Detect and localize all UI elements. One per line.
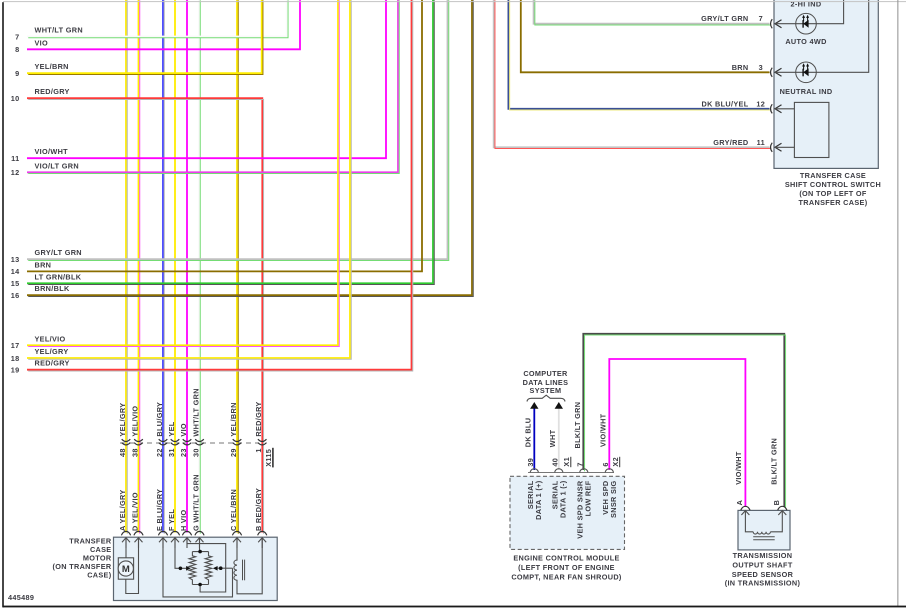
svg-text:M: M	[122, 564, 130, 575]
svg-text:C YEL/BRN: C YEL/BRN	[229, 489, 238, 531]
svg-text:RED/GRY: RED/GRY	[35, 359, 70, 368]
svg-text:13: 13	[11, 255, 20, 264]
svg-text:7: 7	[576, 462, 585, 466]
svg-text:X115: X115	[264, 449, 273, 467]
svg-text:40: 40	[551, 458, 560, 467]
svg-text:10: 10	[11, 94, 20, 103]
svg-text:7: 7	[15, 32, 19, 41]
svg-text:(LEFT FRONT OF ENGINE: (LEFT FRONT OF ENGINE	[518, 563, 615, 572]
svg-text:YEL/BRN: YEL/BRN	[229, 402, 238, 436]
svg-text:22: 22	[155, 448, 164, 457]
svg-text:BRN: BRN	[732, 63, 749, 72]
svg-text:VIO: VIO	[179, 423, 188, 437]
svg-text:D YEL/VIO: D YEL/VIO	[131, 492, 140, 531]
svg-text:TRANSFER CASE: TRANSFER CASE	[800, 171, 866, 180]
svg-text:3: 3	[759, 63, 763, 72]
svg-text:VIO/LT GRN: VIO/LT GRN	[35, 161, 79, 170]
svg-text:X1: X1	[562, 457, 571, 467]
svg-text:(ON TOP LEFT OF: (ON TOP LEFT OF	[799, 189, 867, 198]
svg-text:DK BLU: DK BLU	[524, 418, 533, 447]
svg-text:17: 17	[11, 341, 20, 350]
svg-text:SNSR SIG: SNSR SIG	[609, 481, 618, 518]
svg-text:AUTO 4WD: AUTO 4WD	[785, 37, 826, 46]
svg-text:12: 12	[756, 99, 765, 108]
svg-text:VIO/WHT: VIO/WHT	[35, 147, 69, 156]
svg-text:15: 15	[11, 279, 20, 288]
svg-text:YEL/GRY: YEL/GRY	[35, 347, 69, 356]
svg-text:31: 31	[167, 448, 176, 457]
svg-text:RED/GRY: RED/GRY	[254, 401, 263, 436]
svg-text:9: 9	[15, 69, 19, 78]
svg-text:BRN: BRN	[35, 260, 52, 269]
svg-text:YEL: YEL	[167, 421, 176, 436]
svg-text:18: 18	[11, 354, 20, 363]
svg-text:SYSTEM: SYSTEM	[530, 386, 562, 395]
svg-text:WHT/LT GRN: WHT/LT GRN	[35, 26, 83, 35]
svg-text:YEL/VIO: YEL/VIO	[35, 334, 66, 343]
svg-text:SHIFT CONTROL SWITCH: SHIFT CONTROL SWITCH	[785, 180, 881, 189]
svg-text:VIO/WHT: VIO/WHT	[599, 413, 608, 447]
svg-text:NEUTRAL IND: NEUTRAL IND	[780, 87, 833, 96]
svg-text:445489: 445489	[8, 593, 34, 602]
svg-text:19: 19	[11, 366, 20, 375]
svg-text:11: 11	[757, 138, 765, 147]
svg-text:VIO: VIO	[35, 38, 49, 47]
svg-text:COMPUTER: COMPUTER	[523, 369, 568, 378]
svg-text:12: 12	[11, 168, 20, 177]
svg-text:6: 6	[601, 462, 610, 466]
svg-text:DATA 1 (+): DATA 1 (+)	[534, 480, 543, 520]
svg-text:11: 11	[11, 154, 19, 163]
svg-text:(IN TRANSMISSION): (IN TRANSMISSION)	[725, 579, 801, 588]
svg-text:29: 29	[229, 448, 238, 457]
svg-text:GRY/LT GRN: GRY/LT GRN	[701, 14, 748, 23]
svg-text:LT GRN/BLK: LT GRN/BLK	[35, 272, 82, 281]
svg-text:VIO/WHT: VIO/WHT	[734, 451, 743, 485]
svg-text:38: 38	[131, 448, 140, 457]
svg-text:YEL/VIO: YEL/VIO	[131, 406, 140, 437]
svg-text:H VIO: H VIO	[179, 510, 188, 531]
svg-text:B: B	[772, 500, 781, 506]
svg-text:30: 30	[192, 448, 201, 457]
svg-text:ENGINE CONTROL MODULE: ENGINE CONTROL MODULE	[513, 554, 619, 563]
svg-text:F YEL: F YEL	[167, 509, 176, 531]
svg-text:WHT: WHT	[548, 429, 557, 447]
svg-text:X2: X2	[611, 457, 620, 467]
svg-text:BLK/LT GRN: BLK/LT GRN	[573, 402, 582, 449]
svg-text:RED/GRY: RED/GRY	[35, 87, 70, 96]
svg-text:LOW REF: LOW REF	[584, 480, 593, 516]
svg-text:A: A	[735, 499, 744, 505]
svg-text:TRANSFER CASE): TRANSFER CASE)	[799, 198, 868, 207]
svg-text:YEL/BRN: YEL/BRN	[35, 62, 69, 71]
svg-text:TRANSMISSION: TRANSMISSION	[733, 551, 793, 560]
svg-text:39: 39	[526, 458, 535, 467]
svg-text:DATA 1 (-): DATA 1 (-)	[559, 480, 568, 518]
svg-text:G WHT/LT GRN: G WHT/LT GRN	[192, 474, 201, 531]
svg-text:48: 48	[118, 448, 127, 457]
svg-text:E BLU/GRY: E BLU/GRY	[155, 489, 164, 531]
svg-text:16: 16	[11, 291, 20, 300]
svg-text:14: 14	[11, 267, 20, 276]
svg-text:BRN/BLK: BRN/BLK	[35, 284, 70, 293]
svg-text:CASE): CASE)	[87, 570, 112, 579]
svg-text:BLK/LT GRN: BLK/LT GRN	[769, 438, 778, 485]
svg-text:7: 7	[759, 14, 763, 23]
svg-text:DK BLU/YEL: DK BLU/YEL	[702, 99, 749, 108]
svg-text:8: 8	[15, 45, 19, 54]
svg-text:1: 1	[254, 448, 263, 452]
svg-text:COMPT, NEAR FAN SHROUD): COMPT, NEAR FAN SHROUD)	[511, 572, 622, 581]
svg-text:WHT/LT GRN: WHT/LT GRN	[192, 388, 201, 436]
svg-text:BLU/GRY: BLU/GRY	[155, 402, 164, 437]
svg-text:GRY/LT GRN: GRY/LT GRN	[35, 248, 82, 257]
svg-text:A YEL/GRY: A YEL/GRY	[118, 489, 127, 531]
svg-text:GRY/RED: GRY/RED	[713, 138, 748, 147]
svg-text:YEL/GRY: YEL/GRY	[118, 403, 127, 437]
svg-text:23: 23	[179, 448, 188, 457]
svg-text:OUTPUT SHAFT: OUTPUT SHAFT	[732, 561, 792, 570]
svg-text:B RED/GRY: B RED/GRY	[254, 488, 263, 531]
